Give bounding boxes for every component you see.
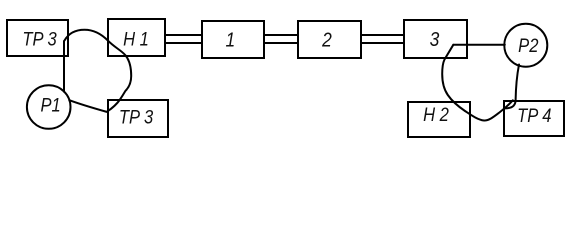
svg-text:TP 3: TP 3 bbox=[22, 28, 56, 50]
svg-text:P1: P1 bbox=[40, 94, 60, 116]
svg-text:1: 1 bbox=[225, 29, 235, 52]
svg-text:TP 4: TP 4 bbox=[517, 105, 551, 127]
svg-text:3: 3 bbox=[430, 29, 440, 52]
svg-text:P2: P2 bbox=[518, 35, 538, 57]
svg-text:H 1: H 1 bbox=[123, 28, 149, 50]
svg-text:2: 2 bbox=[321, 29, 332, 52]
svg-text:H 2: H 2 bbox=[423, 104, 449, 126]
svg-text:TP 3: TP 3 bbox=[119, 106, 153, 128]
